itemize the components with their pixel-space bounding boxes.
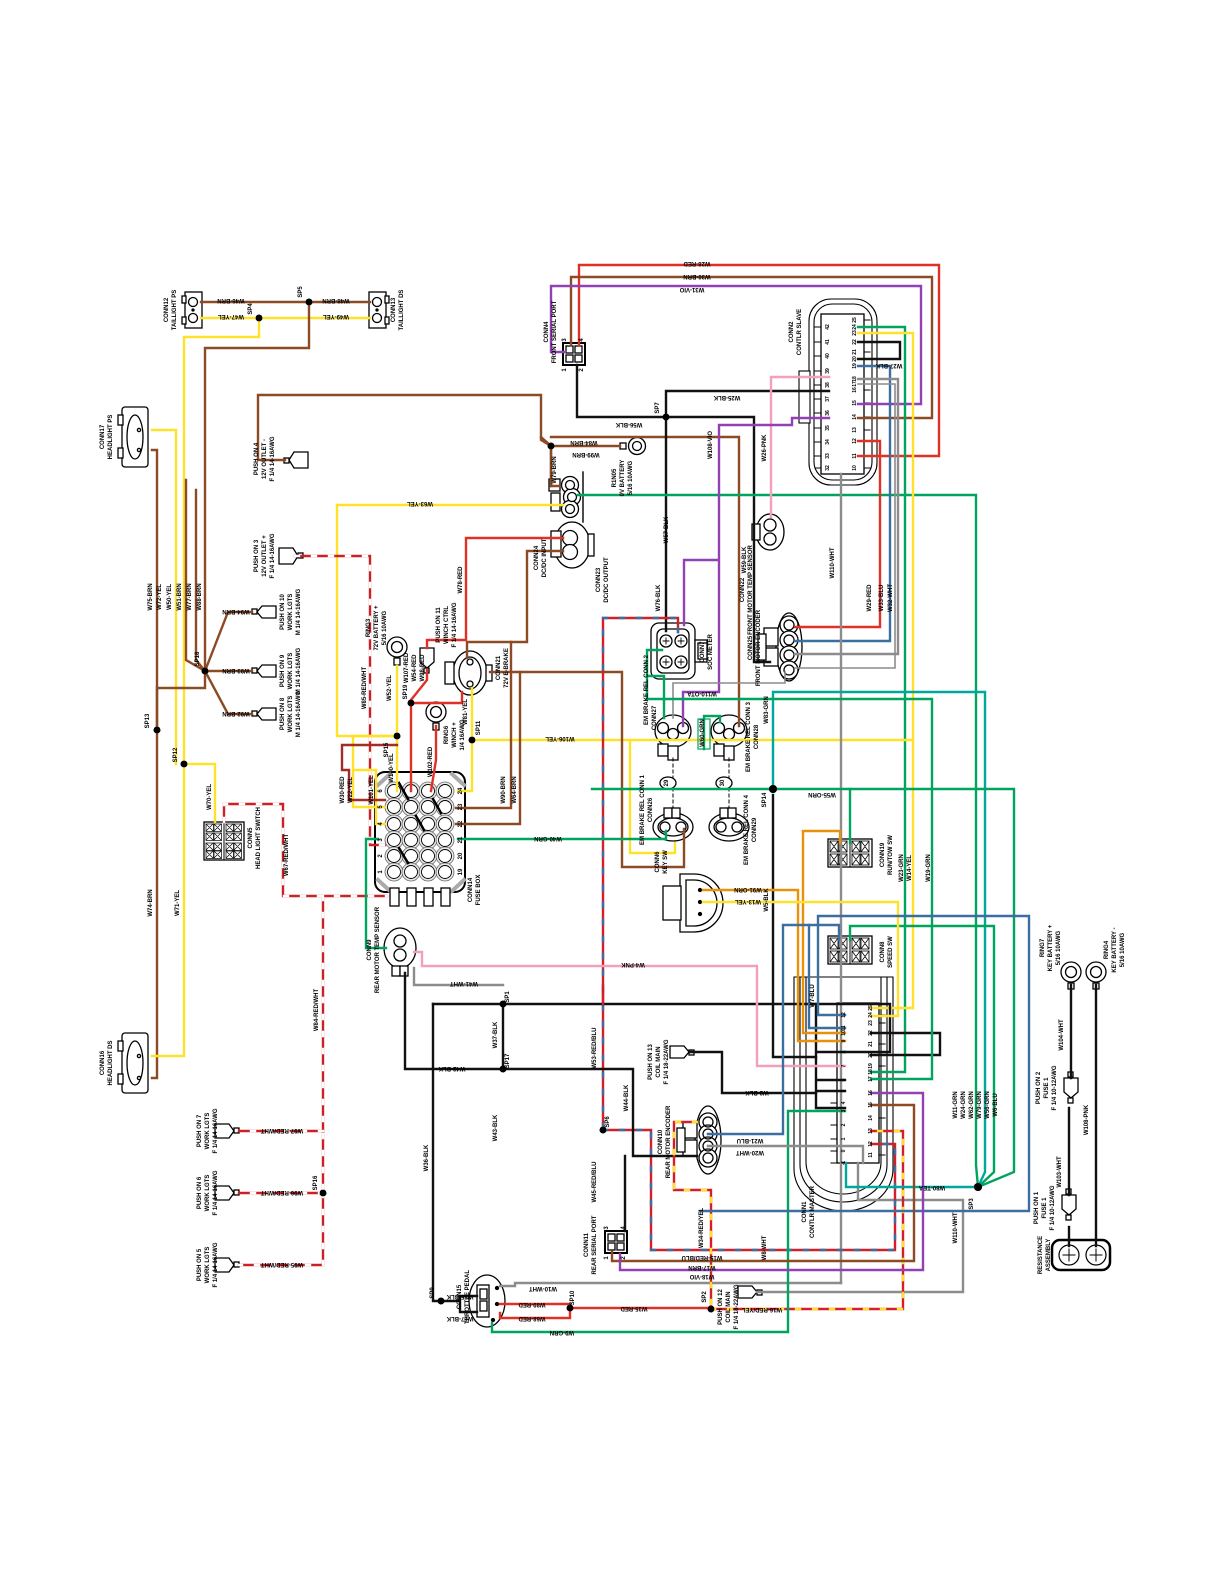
ring RING7 KEY BATTERY + xyxy=(1061,962,1081,989)
wire W5-BLK SP14 black to master xyxy=(773,795,816,1057)
svg-text:CONN22: CONN22 xyxy=(740,577,746,602)
svg-text:10: 10 xyxy=(852,465,858,471)
svg-text:W7-BLU: W7-BLU xyxy=(810,984,816,1007)
wire W56-BLK serial port down to SP7 xyxy=(577,365,770,662)
svg-text:12V OUTLET +: 12V OUTLET + xyxy=(262,535,268,577)
svg-text:SP11: SP11 xyxy=(476,720,482,735)
wire W80-TEAL master to SP3 xyxy=(846,1163,978,1187)
wire W13-YEL key switch yellow xyxy=(703,902,898,1016)
svg-text:21: 21 xyxy=(852,349,858,355)
svg-text:37: 37 xyxy=(825,396,831,402)
svg-text:13: 13 xyxy=(852,427,858,433)
svg-text:33: 33 xyxy=(825,453,831,459)
svg-text:CONN24: CONN24 xyxy=(534,545,540,570)
svg-text:SP9: SP9 xyxy=(430,1287,436,1299)
svg-text:W18-VIO: W18-VIO xyxy=(689,1273,714,1279)
svg-text:W44-BLK: W44-BLK xyxy=(624,1084,630,1111)
svg-text:19: 19 xyxy=(458,868,464,875)
svg-text:2: 2 xyxy=(841,1123,847,1126)
wire W70-YEL SP12 to head light switch xyxy=(184,764,215,822)
svg-text:CONN14: CONN14 xyxy=(468,877,474,902)
svg-text:KEY BATTERY +: KEY BATTERY + xyxy=(1048,924,1054,971)
svg-text:CONN11: CONN11 xyxy=(584,1232,590,1257)
wire W62-GRN speed sw green xyxy=(850,926,994,1187)
controller CONN2 CONTLR SLAVE xyxy=(799,299,877,485)
wire W83-GRN SP14 riser xyxy=(773,692,985,1187)
wire W3-BLK rear black bus SP1 xyxy=(433,1004,890,1052)
ring RING3 72V BATTERY + xyxy=(387,637,407,665)
svg-text:RESISTANCE: RESISTANCE xyxy=(1038,1236,1044,1274)
svg-text:RING3: RING3 xyxy=(366,618,372,637)
svg-text:W64-BRN: W64-BRN xyxy=(512,776,518,803)
svg-text:SP16: SP16 xyxy=(313,1175,319,1190)
svg-text:W5-BLK: W5-BLK xyxy=(764,888,770,912)
wire W20-WHT rear encoder gray xyxy=(708,1146,863,1163)
svg-text:W45-RED/BLU: W45-RED/BLU xyxy=(592,1161,598,1202)
svg-text:2: 2 xyxy=(579,368,585,372)
svg-text:W21-BLU: W21-BLU xyxy=(737,1137,764,1143)
svg-text:W48-BRN: W48-BRN xyxy=(322,297,349,303)
svg-text:W56-GRN: W56-GRN xyxy=(985,1091,991,1119)
svg-text:72V BATTERY +: 72V BATTERY + xyxy=(374,605,380,651)
junction SP7 xyxy=(663,414,670,421)
svg-text:6: 6 xyxy=(841,1078,847,1081)
wire slave yellow long W14-YEL xyxy=(858,333,913,1008)
junction SP6 xyxy=(600,1127,607,1134)
wire W74-BRN to headlight DS xyxy=(152,730,157,1078)
wire W104-WHT fuse2 tail xyxy=(1068,1108,1070,1195)
wire W80-BRN fuse to right xyxy=(456,642,511,808)
junction dots overlay xyxy=(154,299,982,1313)
wire W42-BLK SP17 to rear temp xyxy=(405,973,503,1069)
svg-text:WORK LGTS: WORK LGTS xyxy=(205,1247,211,1284)
svg-text:W6-BLU: W6-BLU xyxy=(993,1093,999,1116)
svg-text:W34-RED/YEL: W34-RED/YEL xyxy=(699,1207,705,1248)
push-on PUSH ON 8 WORK LGTS xyxy=(252,708,276,720)
svg-text:W50-YEL: W50-YEL xyxy=(167,584,173,610)
wire W67-RED/WHT headlight switch to fuse and SP16 xyxy=(224,804,387,1193)
wire W100-YEL SP15 to fuse xyxy=(396,736,398,791)
svg-text:W62-GRN: W62-GRN xyxy=(969,1091,975,1119)
svg-text:W33-BLU: W33-BLU xyxy=(879,585,885,612)
svg-text:W37-BLK: W37-BLK xyxy=(493,1021,499,1048)
svg-text:W77-BRN: W77-BRN xyxy=(187,583,193,610)
svg-text:25: 25 xyxy=(852,317,858,323)
svg-text:17: 17 xyxy=(852,381,858,387)
wire W64-GRN slave to DC/DC green long xyxy=(858,327,905,1072)
svg-text:W16-RED/YEL: W16-RED/YEL xyxy=(741,1306,782,1312)
junction SP17 xyxy=(500,1066,507,1073)
svg-text:CONTLR MASTER: CONTLR MASTER xyxy=(810,1185,816,1238)
wire yellow SP4 drop xyxy=(184,318,259,764)
junction SP10 xyxy=(202,668,209,675)
svg-text:W79-BRN: W79-BRN xyxy=(552,456,558,483)
connector CONN25 FRONT MOTOR ENCODER xyxy=(758,613,802,681)
connector CONN7 SOC METER xyxy=(651,623,707,679)
connector CONN4 FRONT SERIAL PORT xyxy=(563,343,585,365)
svg-text:SP19: SP19 xyxy=(403,684,409,699)
wire W23-GRN soc to master xyxy=(647,650,932,1079)
wire W54-RED winch to SP19 xyxy=(411,670,427,700)
svg-text:PUSH ON 10: PUSH ON 10 xyxy=(280,594,286,630)
svg-text:9: 9 xyxy=(841,1039,847,1042)
wire brown SP5 drop to SP10 xyxy=(205,302,309,671)
svg-text:REAR MOTOR ENCODER: REAR MOTOR ENCODER xyxy=(666,1105,672,1178)
wire W96-RED/WHT work light 6 xyxy=(239,1192,323,1194)
connector CONN9 REAR MOTOR TEMP SENSOR xyxy=(384,928,416,976)
svg-text:CONN9: CONN9 xyxy=(367,939,373,961)
svg-text:CONN5: CONN5 xyxy=(248,827,254,849)
svg-text:25: 25 xyxy=(868,1005,874,1011)
svg-text:5: 5 xyxy=(841,1089,847,1092)
wire W84-BRN to relay conn28 xyxy=(551,437,739,726)
push-on PUSH ON 3 12V OUTLET + xyxy=(279,548,303,564)
svg-text:W51-BRN: W51-BRN xyxy=(177,583,183,610)
svg-text:11: 11 xyxy=(852,453,858,459)
svg-text:W35-RED: W35-RED xyxy=(620,1305,648,1311)
ring R1N05 0V BATTERY xyxy=(620,438,646,455)
svg-text:HEADLIGHT PS: HEADLIGHT PS xyxy=(108,415,114,460)
svg-text:W84-RED/WHT: W84-RED/WHT xyxy=(314,989,320,1032)
svg-text:W56-BLK: W56-BLK xyxy=(615,421,642,427)
svg-text:CONN17: CONN17 xyxy=(100,424,106,449)
marker cavity 29 xyxy=(660,758,676,808)
svg-text:HEADLIGHT DS: HEADLIGHT DS xyxy=(108,1041,114,1086)
svg-text:F 1/4 14-16AWG: F 1/4 14-16AWG xyxy=(270,436,276,481)
connector CONN15 THROTTLE PEDAL xyxy=(469,1275,505,1327)
wire green soc branch to conn27 xyxy=(647,676,664,718)
svg-text:FUSE 1: FUSE 1 xyxy=(1044,1077,1050,1099)
svg-text:CONN8: CONN8 xyxy=(880,941,886,963)
wire W30-RED fuse left dark red xyxy=(349,799,385,801)
svg-text:W42-BLK: W42-BLK xyxy=(438,1065,465,1071)
connector CONN23 DC/DC OUTPUT xyxy=(551,522,594,568)
junction SP16 xyxy=(320,1190,327,1197)
svg-text:20: 20 xyxy=(458,852,464,859)
svg-text:W36-BLK: W36-BLK xyxy=(424,1144,430,1171)
wire W46-BRN taillight bus xyxy=(201,301,370,303)
push-on PUSH ON 5 WORK LGTS xyxy=(215,1258,239,1272)
svg-text:SP4: SP4 xyxy=(248,303,254,315)
wire W59-WHT relay conn27 white xyxy=(673,672,785,718)
ring RING6 WINCH + xyxy=(426,702,446,730)
push-on PUSH ON 1 FUSE 1 xyxy=(1062,1189,1076,1220)
svg-text:DC/DC OUTPUT: DC/DC OUTPUT xyxy=(604,557,610,603)
svg-text:19: 19 xyxy=(868,1063,874,1069)
svg-text:PUSH ON 4: PUSH ON 4 xyxy=(254,442,260,475)
svg-text:PUSH ON 2: PUSH ON 2 xyxy=(1036,1071,1042,1104)
svg-text:ASSEMBLY: ASSEMBLY xyxy=(1046,1239,1052,1272)
svg-text:W107-RED: W107-RED xyxy=(404,652,410,683)
svg-text:CONN2: CONN2 xyxy=(789,321,795,343)
svg-text:CONN1: CONN1 xyxy=(802,1201,808,1223)
wire W45-RED/BLU SP6 to rear serial xyxy=(603,1130,895,1250)
svg-text:PUSH ON 8: PUSH ON 8 xyxy=(280,697,286,730)
svg-text:W49-YEL: W49-YEL xyxy=(323,313,349,319)
svg-text:W90-BRN: W90-BRN xyxy=(501,776,507,803)
wire brown big loop outlet4 to SP junction xyxy=(258,395,560,486)
svg-text:24: 24 xyxy=(458,787,464,794)
svg-text:W100-YEL: W100-YEL xyxy=(389,753,395,783)
svg-text:W27-BLK: W27-BLK xyxy=(875,362,902,368)
svg-text:PUSH ON 11: PUSH ON 11 xyxy=(436,607,442,643)
svg-text:0: 0 xyxy=(841,1149,847,1152)
connector CONN17 HEADLIGHT PS xyxy=(118,407,148,467)
wire W12-BLU speed sw blue xyxy=(809,925,845,1028)
wire W40-ORN runtow to master xyxy=(803,831,845,1033)
svg-text:W71-YEL: W71-YEL xyxy=(175,890,181,916)
wire W22-YEL SP15 left leg xyxy=(353,736,397,807)
svg-text:CONTLR SLAVE: CONTLR SLAVE xyxy=(797,309,803,355)
svg-text:W29-RED: W29-RED xyxy=(867,584,873,612)
wire W61-YEL SP11 to fuse xyxy=(458,740,472,791)
svg-text:SP14: SP14 xyxy=(762,792,768,807)
svg-text:W101-YEL: W101-YEL xyxy=(369,775,375,805)
svg-text:W52-YEL: W52-YEL xyxy=(387,675,393,701)
push-on PUSH ON 2 FUSE 1 xyxy=(1064,1072,1078,1103)
svg-text:W92-BRN: W92-BRN xyxy=(222,710,249,716)
push-on PUSH ON 9 WORK LGTS xyxy=(252,665,276,677)
wire W31-WHT slave to front encoder 2 xyxy=(795,384,895,668)
WIRES-LONG xyxy=(152,265,1096,1332)
wire dark red hook into fuse xyxy=(342,745,397,800)
switch CONN5 HEAD LIGHT SWITCH xyxy=(204,822,244,860)
svg-text:1: 1 xyxy=(562,368,568,372)
svg-text:W98-RED: W98-RED xyxy=(420,654,426,682)
svg-text:16: 16 xyxy=(868,1090,874,1096)
wire W69-BRN ebrake to relay conn28 xyxy=(490,672,684,867)
svg-text:W20-WHT: W20-WHT xyxy=(736,1149,764,1155)
svg-text:24: 24 xyxy=(852,324,858,330)
svg-text:WORK LGTS: WORK LGTS xyxy=(205,1113,211,1150)
svg-text:22: 22 xyxy=(458,820,464,827)
svg-text:3: 3 xyxy=(562,338,568,342)
wire W108-VIO slave to SOC and relay xyxy=(683,418,829,726)
svg-text:COIL MAIN: COIL MAIN xyxy=(726,1291,732,1322)
connector CONN26 EM BRAKE REL CONN 1 xyxy=(653,808,693,841)
svg-text:24: 24 xyxy=(868,1012,874,1018)
svg-text:W31-VIO: W31-VIO xyxy=(679,286,704,292)
svg-text:17: 17 xyxy=(868,1076,874,1082)
svg-text:WORK LGTS: WORK LGTS xyxy=(288,653,294,690)
svg-text:W96-RED/WHT: W96-RED/WHT xyxy=(261,1189,304,1195)
wire W66-GRN DC/DC input right bus xyxy=(578,495,978,1187)
svg-text:CONN26: CONN26 xyxy=(648,797,654,822)
wire W27-BLK slave jumper loop xyxy=(858,342,900,359)
svg-text:W76-BLK: W76-BLK xyxy=(656,584,662,611)
wire W97-RED/WHT work light 7 xyxy=(239,1130,323,1132)
wire W52-YEL ring3 to fuse xyxy=(396,666,398,736)
wire W60-GRN conn28 stub xyxy=(704,716,720,749)
svg-text:EM BRAKE REL CONN 3: EM BRAKE REL CONN 3 xyxy=(746,701,752,772)
svg-text:F 1/4 10-12AWG: F 1/4 10-12AWG xyxy=(1052,1065,1058,1110)
connector CONN22 FRONT MOTOR TEMP SENSOR xyxy=(752,514,784,550)
svg-text:7: 7 xyxy=(841,1064,847,1067)
wire W34-RED/YEL encoder to SP2 xyxy=(674,1122,711,1309)
svg-text:W67-RED/WHT: W67-RED/WHT xyxy=(284,834,290,877)
svg-text:SP6: SP6 xyxy=(605,1116,611,1128)
svg-text:23: 23 xyxy=(458,803,464,810)
junction SP4 xyxy=(256,315,263,322)
svg-text:CONN29: CONN29 xyxy=(752,817,758,842)
wire W9-GRN pedal green to master xyxy=(492,1111,845,1332)
svg-text:13: 13 xyxy=(868,1128,874,1134)
svg-text:WORK LGTS: WORK LGTS xyxy=(205,1175,211,1212)
svg-text:CONN10: CONN10 xyxy=(658,1129,664,1154)
svg-text:TAILLIGHT DS: TAILLIGHT DS xyxy=(399,290,405,331)
svg-text:CONN16: CONN16 xyxy=(100,1050,106,1075)
svg-text:39: 39 xyxy=(825,368,831,374)
wire yellow outlet3 vertical xyxy=(337,505,394,736)
wire W7-BLU blue loop xyxy=(700,916,1029,1211)
svg-text:30: 30 xyxy=(720,779,726,786)
svg-text:PUSH ON 5: PUSH ON 5 xyxy=(197,1248,203,1281)
svg-text:29: 29 xyxy=(664,779,670,786)
junction SP15 xyxy=(394,733,401,740)
svg-text:SPEED SW: SPEED SW xyxy=(888,936,894,968)
junction SP19 xyxy=(408,700,415,707)
svg-text:20: 20 xyxy=(868,1052,874,1058)
svg-text:12V OUTLET -: 12V OUTLET - xyxy=(262,439,268,479)
svg-text:21: 21 xyxy=(458,836,464,843)
svg-text:34: 34 xyxy=(825,439,831,445)
svg-text:FRONT MOTOR ENCODER: FRONT MOTOR ENCODER xyxy=(756,609,762,686)
svg-text:W68-RED: W68-RED xyxy=(518,1315,546,1321)
junction SP3 xyxy=(974,1183,982,1191)
connector CONN12 TAILLIGHT PS xyxy=(182,292,202,328)
svg-text:FUSE 1: FUSE 1 xyxy=(1042,1197,1048,1219)
svg-text:SP5: SP5 xyxy=(298,286,304,298)
switch CONN8 SPEED SW xyxy=(828,936,872,964)
svg-text:23: 23 xyxy=(852,330,858,336)
wire master black bracket xyxy=(816,1004,845,1108)
svg-text:CONN25: CONN25 xyxy=(748,635,754,660)
svg-text:W97-RED/WHT: W97-RED/WHT xyxy=(261,1127,304,1133)
push-on PUSH ON 7 WORK LGTS xyxy=(215,1124,239,1138)
push-on PUSH ON 12 COIL MAIN xyxy=(738,1286,762,1298)
wire W91-ORN key switch to master xyxy=(703,890,845,1041)
svg-text:RING4: RING4 xyxy=(1104,940,1110,959)
svg-text:W13-YEL: W13-YEL xyxy=(735,898,761,904)
push-on PUSH ON 11 WINCH CTRL xyxy=(420,648,434,673)
svg-text:1: 1 xyxy=(604,1256,610,1260)
svg-text:SP3: SP3 xyxy=(969,1198,975,1210)
svg-text:20: 20 xyxy=(852,356,858,362)
svg-text:5/16 10AWG: 5/16 10AWG xyxy=(628,460,634,495)
svg-text:R1N05: R1N05 xyxy=(612,468,618,487)
wire W14-YEL into master xyxy=(871,1007,913,1009)
svg-text:HEAD LIGHT SWITCH: HEAD LIGHT SWITCH xyxy=(256,807,262,869)
svg-text:W24-GRN: W24-GRN xyxy=(961,1091,967,1119)
svg-text:W22-YEL: W22-YEL xyxy=(348,777,354,803)
svg-text:M 1/4 14-16AWG: M 1/4 14-16AWG xyxy=(296,647,302,694)
svg-text:5/16 10AWG: 5/16 10AWG xyxy=(382,610,388,645)
svg-text:W110-WHT: W110-WHT xyxy=(953,1212,959,1243)
svg-text:W4-PNK: W4-PNK xyxy=(621,961,645,967)
svg-text:W85-RED/WHT: W85-RED/WHT xyxy=(362,667,368,710)
svg-text:EM BRAKE REL CONN 4: EM BRAKE REL CONN 4 xyxy=(744,794,750,865)
wire W21-BLU rear encoder blue xyxy=(708,925,809,1134)
svg-text:RING7: RING7 xyxy=(1040,938,1046,957)
svg-text:W84-BRN: W84-BRN xyxy=(570,439,597,445)
wire W98-RED SP19 to e-brake xyxy=(411,692,462,703)
svg-text:41: 41 xyxy=(825,339,831,345)
svg-text:38: 38 xyxy=(825,382,831,388)
junction SP13 xyxy=(154,727,161,734)
svg-text:COIL MAIN: COIL MAIN xyxy=(656,1046,662,1077)
svg-text:11: 11 xyxy=(868,1152,874,1158)
svg-text:W110-WHT: W110-WHT xyxy=(830,547,836,578)
wire W29-RED slave to front encoder xyxy=(795,441,880,627)
svg-text:F 1/4 18-22AWG: F 1/4 18-22AWG xyxy=(734,1284,740,1329)
svg-text:PUSH ON 9: PUSH ON 9 xyxy=(280,654,286,687)
svg-text:F 1/4 14-16AWG: F 1/4 14-16AWG xyxy=(452,602,458,647)
svg-text:2: 2 xyxy=(621,1256,627,1260)
svg-text:CONN13: CONN13 xyxy=(391,297,397,322)
svg-text:PUSH ON 3: PUSH ON 3 xyxy=(254,539,260,572)
svg-text:18: 18 xyxy=(852,376,858,382)
svg-text:22: 22 xyxy=(868,1030,874,1036)
svg-text:W65-BLK: W65-BLK xyxy=(446,1293,473,1299)
svg-text:CONN4: CONN4 xyxy=(544,321,550,343)
svg-text:RUN/TOW SW: RUN/TOW SW xyxy=(888,835,894,875)
svg-text:1: 1 xyxy=(841,1137,847,1140)
svg-text:W57-BLK: W57-BLK xyxy=(664,516,670,543)
wire W92-BRN push-on 8 xyxy=(205,671,252,714)
wire W49-BRN dcdc out to ebrake xyxy=(467,551,563,658)
svg-text:SP12: SP12 xyxy=(173,747,179,762)
wire W95-RED/WHT work light 5 xyxy=(239,1193,323,1265)
junction SP9 xyxy=(438,1298,445,1305)
svg-text:W32-WHT: W32-WHT xyxy=(888,584,894,612)
wire W35-RED pedal to SP2 xyxy=(500,1304,711,1318)
svg-text:W17-BRN: W17-BRN xyxy=(688,1264,715,1270)
svg-text:SP10: SP10 xyxy=(570,1290,576,1305)
svg-text:PUSH ON 7: PUSH ON 7 xyxy=(197,1114,203,1147)
svg-text:SP13: SP13 xyxy=(145,713,151,728)
svg-text:W23-GRN: W23-GRN xyxy=(899,854,905,882)
svg-text:WORK LGTS: WORK LGTS xyxy=(288,696,294,733)
svg-text:3: 3 xyxy=(604,1226,610,1230)
connector CONN16 HEADLIGHT DS xyxy=(118,1033,148,1093)
wire W81-YEL to relay conn26 xyxy=(630,740,675,853)
svg-text:72V E-BRAKE: 72V E-BRAKE xyxy=(504,648,510,688)
svg-text:W41-WHT: W41-WHT xyxy=(450,980,478,986)
svg-text:RING6: RING6 xyxy=(444,725,450,744)
wire gray master to push-on12 xyxy=(757,1163,963,1292)
svg-text:19: 19 xyxy=(852,363,858,369)
ring RING4 KEY BATTERY - xyxy=(1086,962,1106,989)
svg-text:23: 23 xyxy=(868,1020,874,1026)
svg-text:SP17: SP17 xyxy=(505,1053,511,1068)
svg-text:40: 40 xyxy=(825,353,831,359)
push-on PUSH ON 13 COIL MAIN xyxy=(670,1046,694,1058)
svg-text:21: 21 xyxy=(868,1041,874,1047)
wire W84-BRN label stub xyxy=(541,437,551,486)
svg-text:3: 3 xyxy=(841,1109,847,1112)
svg-text:W53-RED/BLU: W53-RED/BLU xyxy=(592,1027,598,1068)
wire W16-RED/YEL SP2 to master xyxy=(711,1131,903,1309)
svg-text:EM BRAKE REL CONN 1: EM BRAKE REL CONN 1 xyxy=(640,774,646,845)
junction SP14 xyxy=(769,785,777,793)
svg-text:SP2: SP2 xyxy=(702,1291,708,1303)
svg-text:W93-BRN: W93-BRN xyxy=(222,667,249,673)
svg-text:CONN7: CONN7 xyxy=(700,641,706,663)
svg-text:W102-RED: W102-RED xyxy=(428,746,434,777)
svg-text:W94-BRN: W94-BRN xyxy=(222,608,249,614)
svg-text:12: 12 xyxy=(868,1141,874,1147)
wire W99-BRN ring stub xyxy=(551,445,620,447)
